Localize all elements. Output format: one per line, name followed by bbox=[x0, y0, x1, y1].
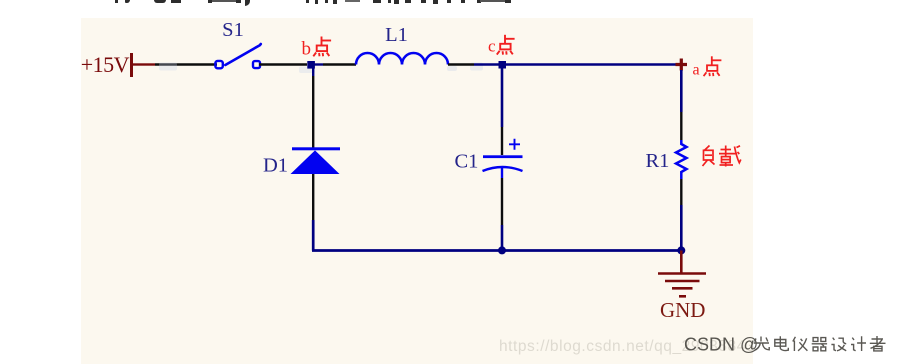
wire diode D1 to bottom rail bbox=[312, 174, 314, 251]
node b junction bbox=[307, 61, 315, 69]
switch S1 designator bbox=[222, 19, 244, 41]
svg-text:R1: R1 bbox=[646, 150, 670, 172]
power port +15V label bbox=[81, 52, 130, 77]
inductor L1 designator bbox=[385, 24, 408, 46]
svg-text:b: b bbox=[302, 39, 312, 60]
svg-text:C1: C1 bbox=[455, 151, 479, 173]
svg-text:CSDN @: CSDN @ bbox=[684, 335, 758, 355]
heading text (cropped bottom fragments) bbox=[0, 0, 911, 1]
inductor L1 bbox=[356, 53, 448, 64]
diode D1 triangle bbox=[291, 150, 340, 174]
svg-text:a: a bbox=[693, 62, 700, 79]
bottom rail wire bbox=[312, 249, 681, 252]
ground symbol bars bbox=[658, 274, 706, 297]
resistor R1 load label 负载 bbox=[703, 146, 741, 167]
node a no-ERC cross marker bbox=[676, 59, 688, 71]
ground label GND bbox=[660, 298, 706, 322]
switch S1 left terminal bbox=[215, 61, 222, 68]
capacitor C1 curved plate bbox=[483, 167, 523, 171]
svg-text:+15V: +15V bbox=[81, 52, 130, 77]
capacitor C1 designator bbox=[455, 151, 479, 173]
svg-text:c: c bbox=[488, 37, 496, 56]
junction dot C1/rail bbox=[498, 246, 506, 254]
wire from +15V bar (red segment) bbox=[133, 63, 155, 65]
diode D1 cathode bar bbox=[292, 147, 340, 150]
schematic sheet background bbox=[81, 18, 753, 364]
svg-text:S1: S1 bbox=[222, 19, 244, 41]
diode D1 designator bbox=[263, 155, 288, 177]
ground stub wire bbox=[680, 251, 683, 274]
wire node b to inductor L1 bbox=[314, 63, 356, 65]
watermark ghost smudges on wire bbox=[159, 63, 483, 74]
wire inductor L1 to node c bbox=[448, 63, 499, 65]
wire +15V to switch S1 bbox=[155, 63, 217, 65]
switch S1 blade bbox=[225, 44, 260, 65]
wire resistor R1 to bottom rail bbox=[680, 179, 682, 251]
wire node c down to capacitor C1 bbox=[501, 68, 504, 155]
resistor R1 designator bbox=[646, 150, 670, 172]
wire node b down to diode D1 bbox=[312, 65, 314, 148]
wire node a down to resistor R1 bbox=[680, 70, 683, 140]
svg-text:D1: D1 bbox=[263, 155, 288, 177]
wire switch to node b bbox=[259, 63, 307, 65]
junction dot GND/rail bbox=[677, 246, 685, 254]
svg-text:L1: L1 bbox=[385, 24, 408, 46]
node b label b点 bbox=[302, 37, 332, 60]
watermark author CJK glyphs bbox=[754, 336, 886, 351]
wire node c to node a bbox=[506, 63, 676, 66]
watermark url bbox=[499, 338, 755, 355]
resistor R1 bbox=[676, 140, 687, 179]
capacitor C1 plus sign bbox=[509, 139, 520, 150]
switch S1 right terminal bbox=[253, 61, 260, 68]
power port +15V bar bbox=[130, 53, 133, 77]
capacitor C1 top plate bbox=[483, 155, 523, 158]
node c junction bbox=[499, 61, 507, 69]
watermark CSDN text bbox=[684, 335, 758, 355]
svg-text:GND: GND bbox=[660, 298, 706, 322]
capacitor C1 bottom pin bbox=[501, 168, 503, 251]
node c label c点 bbox=[488, 35, 515, 56]
node a label a点 bbox=[693, 56, 722, 78]
